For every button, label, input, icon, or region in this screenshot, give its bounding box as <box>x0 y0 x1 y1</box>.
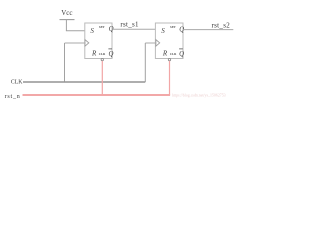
flip-flop U1 Q-bar overline <box>108 48 112 50</box>
svg-text:Q: Q <box>179 51 184 58</box>
wire rst_n rail (red) <box>23 94 171 96</box>
flip-flop U2 Q-bar overline <box>179 48 183 50</box>
flip-flop U2 clear bubble <box>168 58 170 60</box>
wire U1 Q output to U2 S input (net rst_s1) <box>112 28 155 30</box>
wire CLK riser to U2 clock <box>144 43 146 82</box>
svg-text:CLR: CLR <box>170 52 177 56</box>
wire CLK rail <box>23 81 145 83</box>
flip-flop U1 body <box>85 23 112 59</box>
flip-flop U2 body <box>155 23 183 59</box>
svg-text:rst_s1: rst_s1 <box>120 21 139 29</box>
svg-text:rst_s2: rst_s2 <box>212 22 231 30</box>
wire U1 clock input <box>65 42 85 44</box>
svg-text:R: R <box>162 50 168 58</box>
svg-text:SET: SET <box>99 25 106 29</box>
svg-text:S: S <box>161 27 165 35</box>
wire U2 clock input <box>145 42 156 44</box>
wire rst_n riser to U2 clear bubble (red) <box>169 61 171 95</box>
svg-text:rst_n: rst_n <box>5 94 21 100</box>
wire CLK riser to U1 clock <box>64 43 66 82</box>
flip-flop U1 clear bubble <box>101 58 103 60</box>
wire Vcc to S input of U1 <box>66 30 85 32</box>
flip-flop U2 clock triangle <box>156 40 160 47</box>
svg-text:S: S <box>90 27 94 35</box>
svg-text:https://blog.csdn.net/ys_15062: https://blog.csdn.net/ys_15062753 <box>172 94 226 98</box>
svg-text:SET: SET <box>170 25 177 29</box>
wire rst_n riser to U1 clear bubble (red) <box>101 61 103 95</box>
flip-flop U1 clock triangle <box>85 40 89 47</box>
svg-text:Q: Q <box>109 51 114 58</box>
svg-text:Vcc: Vcc <box>61 9 72 17</box>
svg-text:CLR: CLR <box>99 52 106 56</box>
svg-text:R: R <box>91 50 97 58</box>
power symbol Vcc bar <box>60 19 75 21</box>
wire Vcc vertical drop <box>65 20 67 31</box>
svg-text:CLK: CLK <box>11 80 23 86</box>
wire U2 Q output (net rst_s2) <box>183 29 233 31</box>
